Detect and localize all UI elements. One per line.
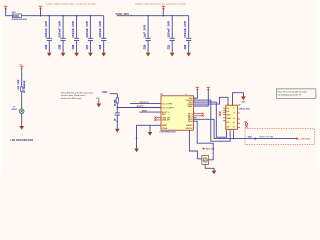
svg-text:GND: GND (96, 98, 101, 100)
svg-text:C12: C12 (184, 44, 187, 49)
svg-text:36: 36 (185, 94, 187, 96)
svg-text:BOOT0: BOOT0 (137, 106, 144, 108)
wire rail VDDA (117, 15, 189, 17)
wire VDD to R1 (110, 93, 118, 95)
wire VSS to U2 pin B (194, 100, 231, 141)
no-connect X pins right (194, 114, 202, 116)
capacitor C14 (45, 15, 52, 53)
svg-text:100nF 16V: 100nF 16V (184, 21, 187, 38)
ground (97, 104, 102, 108)
svg-text:BLM18AG601SN1D: BLM18AG601SN1D (12, 18, 28, 21)
ground (47, 53, 52, 57)
pin stubs U2 left/right (223, 108, 240, 127)
no-connect X pins left (154, 117, 156, 121)
svg-text:I5: I5 (233, 118, 234, 120)
svg-text:1: 1 (18, 89, 19, 91)
svg-text:100nF 16V: 100nF 16V (168, 21, 171, 38)
svg-text:1uF 10V: 1uF 10V (144, 25, 147, 38)
svg-text:600R: 600R (13, 14, 19, 18)
svg-text:C10: C10 (144, 44, 147, 49)
svg-text:C16: C16 (72, 44, 75, 49)
svg-text:100nF 16V: 100nF 16V (59, 21, 62, 38)
wire VDD flag to pin (194, 90, 198, 98)
note text place boot0 (61, 92, 94, 99)
wire NRST to U1 (139, 111, 161, 113)
svg-text:(J-LINK ARM): (J-LINK ARM) (299, 138, 311, 141)
capacitor C12 (184, 16, 191, 53)
svg-text:SWDIO TCK PIN: SWDIO TCK PIN (259, 136, 273, 138)
ground (101, 53, 106, 57)
pin stub PA2 (194, 116, 197, 118)
wire from power flag to FB1 (6, 9, 12, 16)
svg-text:R3 10M: R3 10M (18, 79, 20, 88)
svg-text:IO1: IO1 (227, 108, 230, 110)
ground (186, 53, 191, 57)
svg-text:Place BOOT0 and VDD caps close: Place BOOT0 and VDD caps close (61, 92, 94, 94)
svg-text:NRST: NRST (142, 111, 148, 113)
svg-text:VDDA DECOUPLING CAPACITORS: VDDA DECOUPLING CAPACITORS (135, 2, 186, 6)
ground (212, 171, 217, 175)
ground (170, 53, 175, 57)
capacitor C15 (59, 15, 66, 53)
svg-text:VDD DECOUPLING CAPACITORS: VDD DECOUPLING CAPACITORS (46, 2, 96, 6)
sheet margins (0, 0, 1, 174)
pin names U1 left (162, 103, 174, 130)
pin numbers U1 right (185, 94, 196, 120)
svg-text:MCO_32K: MCO_32K (206, 149, 215, 151)
svg-text:Y1: Y1 (13, 107, 15, 109)
wire U2 pin3 to SWD line (233, 132, 235, 139)
wire VDDA to U2 top (194, 97, 229, 105)
svg-text:C15: C15 (59, 44, 62, 49)
wire crystal branch (21, 68, 23, 109)
ground (74, 53, 79, 57)
wire OSC_IN to U1 (130, 103, 161, 105)
resistor R3 (21, 87, 23, 91)
ground (19, 126, 24, 130)
svg-text:VDD: VDD (102, 91, 107, 94)
svg-text:100nF 16V: 100nF 16V (99, 21, 102, 38)
junction (162, 15, 164, 17)
svg-text:USBLC6-2SC6: USBLC6-2SC6 (239, 108, 251, 110)
junction (40, 15, 42, 17)
svg-text:Osc_Out/PF1: Osc_Out/PF1 (162, 106, 174, 109)
op-amp U1 (MCU STM32) (161, 96, 194, 130)
ESD chip U2 (226, 105, 238, 129)
wire U1 bottom pin to crystal left (189, 130, 201, 159)
ground (115, 129, 120, 133)
ground (88, 53, 93, 57)
ground (134, 149, 139, 153)
svg-text:OSC32_IN: OSC32_IN (139, 102, 149, 104)
power flag VDD (left) (4, 6, 7, 9)
svg-text:use individual ground for TP.: use individual ground for TP. (278, 93, 302, 96)
svg-text:PB1: PB1 (162, 114, 166, 116)
svg-text:SWDIO: SWDIO (186, 125, 193, 127)
svg-text:I7: I7 (233, 126, 234, 128)
capacitor C11 (168, 15, 175, 53)
pin names U2 (227, 108, 236, 128)
capacitor C9 (115, 108, 120, 129)
svg-text:to each other. Keep traces: to each other. Keep traces (61, 94, 85, 97)
pin stubs U2 top (228, 103, 233, 105)
svg-text:32.768KHZ: 32.768KHZ (24, 80, 26, 93)
node J-LINK (296, 138, 298, 140)
svg-text:IO3: IO3 (227, 122, 230, 124)
crystal Y1 (19, 109, 24, 114)
dashed box SWD header (245, 129, 314, 145)
wire VBAT flag to pin (194, 90, 209, 106)
power flag VBAT (U1) (207, 87, 210, 90)
wire VSS2 to U2 pin A (194, 102, 227, 137)
ferrite bead FB1 (12, 14, 21, 18)
wire U2 top to ground (233, 93, 244, 106)
ground stub under VSS wire (149, 125, 151, 132)
wire power stem to rail (40, 9, 42, 16)
capacitor C17 (86, 15, 93, 53)
wire crystal bottom to ground (205, 164, 214, 170)
svg-text:Osc_In/PF0: Osc_In/PF0 (162, 103, 172, 105)
svg-text:NRST: NRST (162, 125, 168, 127)
svg-text:USB_DP: USB_DP (162, 120, 170, 122)
resistor R1 (116, 94, 118, 108)
no-connect X pins U2 left (223, 112, 226, 114)
wire VSS to ground (137, 125, 162, 148)
svg-text:U2: U2 (238, 104, 240, 106)
wire crystal to ground (21, 114, 23, 127)
svg-text:STM32F042G6U6: STM32F042G6U6 (159, 131, 176, 134)
svg-text:C11: C11 (168, 44, 171, 49)
crystal X1 (202, 156, 209, 165)
power flag VDDA (162, 6, 165, 9)
capacitor C18 (99, 16, 106, 53)
svg-text:R1 10K: R1 10K (114, 99, 116, 106)
svg-text:C14: C14 (45, 44, 48, 49)
svg-text:C9: C9 (114, 119, 116, 121)
wire power stem to VDDA rail (162, 9, 164, 16)
net flag MCO (203, 148, 206, 150)
svg-text:SWCLK: SWCLK (186, 128, 194, 130)
svg-text:SWD: SWD (248, 137, 253, 139)
svg-text:100nF 16V: 100nF 16V (86, 21, 89, 38)
svg-text:IO2: IO2 (227, 111, 230, 113)
svg-text:100nF 16V: 100nF 16V (45, 21, 48, 38)
wire BOOT0 to U1 (117, 107, 161, 109)
pin names U1 right (186, 98, 194, 130)
svg-text:C17: C17 (86, 44, 89, 49)
wire rail VDD (22, 15, 104, 17)
svg-text:VBAT: VBAT (188, 105, 194, 108)
power flag VDD (rail) (39, 6, 42, 9)
capacitor C10 (144, 15, 151, 53)
pin stubs U2 bottom (227, 129, 234, 131)
power flag VDD (U1) (196, 87, 199, 90)
ground (146, 53, 151, 57)
svg-text:Place TP on the top side pin t: Place TP on the top side pin to give (278, 90, 308, 93)
wire SWDIO to header (194, 119, 297, 138)
svg-text:VSSA: VSSA (162, 127, 168, 130)
ground (241, 97, 246, 101)
svg-text:100nF 16V: 100nF 16V (72, 21, 75, 38)
wire PA14 to crystal right (194, 121, 214, 160)
capacitor C16 (72, 15, 79, 53)
svg-text:GND: GND (242, 102, 246, 104)
junction (116, 107, 118, 109)
svg-text:I6: I6 (233, 122, 234, 124)
svg-text:IO4: IO4 (227, 125, 230, 128)
power flag VBAT (crystal branch) (19, 64, 24, 68)
svg-text:short to the MCU pins.: short to the MCU pins. (61, 97, 82, 100)
ground (61, 53, 66, 57)
svg-text:C18: C18 (99, 44, 102, 49)
note box place TP (276, 89, 316, 98)
svg-text:LSE RESONATOR: LSE RESONATOR (10, 139, 33, 142)
